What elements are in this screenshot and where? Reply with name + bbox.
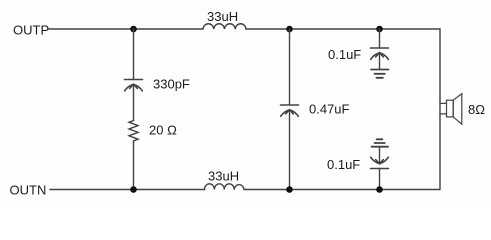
svg-text:20 Ω: 20 Ω [149,123,177,138]
wire Zobel branch top lead [133,29,135,80]
wire ground to C4 [379,147,381,164]
capacitor C3 0.1uF (top) [371,48,389,59]
capacitor C1 330pF [125,80,143,91]
svg-text:0.1uF: 0.1uF [328,47,361,62]
junction bottom Zobel node [130,186,137,193]
inductor L1 33uH (top) [203,24,246,29]
wire 20 ohm to OUTN rail [133,141,135,190]
svg-text:0.47uF: 0.47uF [309,102,350,117]
wire 0.47uF top lead [289,29,291,105]
svg-text:0.1uF: 0.1uF [327,157,360,172]
speaker LS1 [440,94,462,125]
wire 0.47uF bottom lead [289,110,291,190]
wire top 0.1uF lead [379,29,381,48]
junction bottom 0.47uF node [286,186,293,193]
wire OUTP to inductor L1 [49,28,204,30]
wire C3 to ground [379,53,381,70]
wire L2 to bottom-right corner [244,189,440,191]
capacitor C4 0.1uF (bottom) [371,157,389,168]
wire 330pF to 20 ohm resistor [133,84,135,120]
svg-text:OUTN: OUTN [10,183,47,198]
inductor L2 33uH (bottom) [205,184,245,190]
resistor R1 20 ohm [129,121,138,142]
junction bottom 0.1uF node [376,186,383,193]
capacitor C2 0.47uF [281,105,299,116]
wire L1 to top-right corner [246,28,440,30]
svg-text:OUTP: OUTP [13,23,49,38]
wire OUTN rail [50,189,205,191]
junction top 0.47uF node [286,26,293,33]
svg-text:33uH: 33uH [208,169,239,184]
wire right vertical (speaker branch) [439,29,441,190]
ground (top) [371,70,389,78]
junction top Zobel node [130,26,137,33]
junction top 0.1uF node [376,26,383,33]
wire C4 to OUTN rail [379,169,381,190]
svg-text:33uH: 33uH [207,9,238,24]
svg-text:330pF: 330pF [153,77,190,92]
ground (bottom, inverted) [372,139,389,146]
svg-text:8Ω: 8Ω [468,102,485,117]
